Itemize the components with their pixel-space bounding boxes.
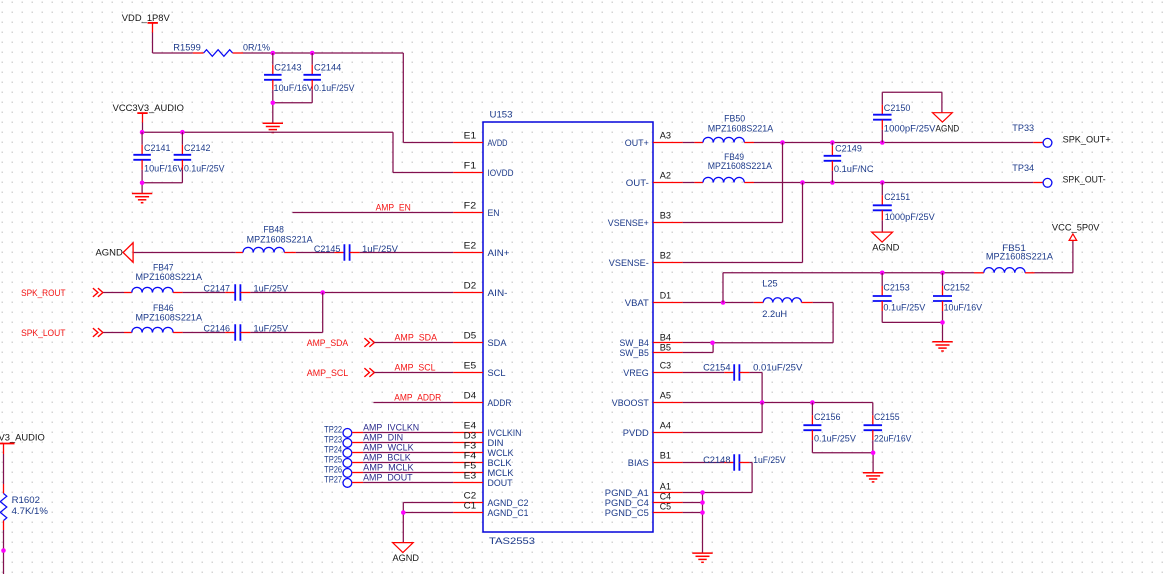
test point TP34 xyxy=(1012,163,1052,187)
wire BIAS to C2148 xyxy=(683,462,724,464)
svg-text:SPK_ROUT: SPK_ROUT xyxy=(21,288,66,298)
svg-text:0.1uF/25V: 0.1uF/25V xyxy=(184,163,225,173)
net label AMP_MCLK xyxy=(363,463,414,473)
svg-text:C2146: C2146 xyxy=(204,324,231,334)
wire C2148 to PGND net xyxy=(703,463,753,493)
wire C2145 to pin E2 xyxy=(360,252,454,254)
wire cap bottoms join xyxy=(273,103,312,123)
resistor R1599 xyxy=(173,43,270,57)
net label AMP_EN xyxy=(376,203,411,213)
pin A1 PGND_A1 xyxy=(605,482,683,498)
ferrite bead FB48 xyxy=(236,224,314,252)
pin B4 SW_B4 xyxy=(620,333,683,348)
wire FB51 to VCC_5P0V xyxy=(1035,242,1073,273)
svg-text:TP34: TP34 xyxy=(1012,163,1034,173)
capacitor C2145 xyxy=(314,244,399,261)
svg-text:AMP_MCLK: AMP_MCLK xyxy=(363,463,414,473)
ferrite bead FB46 xyxy=(124,303,203,333)
junction xyxy=(880,140,885,145)
pin A2 OUT- xyxy=(626,171,683,188)
svg-text:FB48: FB48 xyxy=(263,224,284,234)
ground AGND (triangle) xyxy=(933,113,960,134)
off-page connector AMP_SCL xyxy=(364,368,374,377)
svg-text:TP27: TP27 xyxy=(324,475,342,485)
svg-text:MPZ1608S221A: MPZ1608S221A xyxy=(708,124,774,134)
wire PGND net to ground xyxy=(702,493,704,553)
svg-text:IVCLKIN: IVCLKIN xyxy=(488,428,522,438)
wire AGND to FB48 xyxy=(134,252,236,254)
junction xyxy=(940,320,945,325)
ferrite bead FB51 xyxy=(974,243,1054,273)
junction xyxy=(700,490,705,495)
wire PGND_A1 xyxy=(683,492,703,494)
svg-text:C5: C5 xyxy=(660,502,671,512)
svg-text:TAS2553: TAS2553 xyxy=(489,536,535,546)
IC U153 TAS2553 xyxy=(483,110,653,547)
svg-text:AVDD: AVDD xyxy=(488,138,508,148)
svg-text:C2141: C2141 xyxy=(144,143,171,153)
svg-text:VBOOST: VBOOST xyxy=(612,398,649,408)
wire VSENSE- to OUT- net xyxy=(683,183,803,263)
pin F3 WCLK xyxy=(453,441,514,458)
ground xyxy=(863,473,883,482)
wire PGND_C5 xyxy=(683,512,703,514)
svg-text:C2154: C2154 xyxy=(703,363,730,373)
power symbol VDD_1P8V xyxy=(122,13,171,33)
svg-text:MPZ1608S221A: MPZ1608S221A xyxy=(247,235,314,245)
junction xyxy=(710,341,715,346)
wire VCC3V3_AUDIO to R1602 xyxy=(3,454,5,484)
svg-text:OUT+: OUT+ xyxy=(625,138,649,148)
wire VBAT rail xyxy=(723,273,974,303)
pin D5 SDA xyxy=(453,331,507,348)
off-page connector SPK_ROUT xyxy=(21,288,103,298)
svg-text:22uF/16V: 22uF/16V xyxy=(874,434,912,444)
power symbol VCC3V3_AUDIO (left edge) xyxy=(0,433,45,454)
svg-text:B5: B5 xyxy=(660,343,671,353)
svg-text:AMP_DIN: AMP_DIN xyxy=(363,433,403,443)
wire AMP_SCL to pin E5 xyxy=(374,372,453,374)
capacitor C2142 xyxy=(174,132,226,183)
junction xyxy=(760,400,765,405)
net label AMP_WCLK xyxy=(363,443,414,453)
svg-text:D2: D2 xyxy=(464,281,477,291)
svg-text:BIAS: BIAS xyxy=(628,458,649,468)
junction xyxy=(871,450,876,455)
pin E1 AVDD xyxy=(453,131,507,148)
wire C2146 up to SPK_ROUT net xyxy=(250,293,322,333)
capacitor C2150 xyxy=(873,92,936,142)
junction xyxy=(140,181,145,186)
svg-text:U153: U153 xyxy=(490,110,513,120)
svg-text:WCLK: WCLK xyxy=(488,448,515,458)
junction xyxy=(830,140,835,145)
svg-text:TP26: TP26 xyxy=(324,465,342,475)
junction xyxy=(180,130,185,135)
svg-text:VCC3V3_AUDIO: VCC3V3_AUDIO xyxy=(0,433,45,443)
pin A5 VBOOST xyxy=(612,391,683,408)
svg-text:VSENSE+: VSENSE+ xyxy=(608,218,649,228)
capacitor C2149 xyxy=(824,143,874,183)
pin C4 PGND_C4 xyxy=(605,492,683,508)
capacitor C2147 xyxy=(204,284,289,301)
pin C2 AGND_C2 xyxy=(453,491,528,508)
wire AMP_DOUT to IC xyxy=(352,482,453,484)
svg-text:C4: C4 xyxy=(660,492,671,502)
svg-text:A2: A2 xyxy=(660,171,671,181)
resistor R1602 xyxy=(0,484,48,530)
svg-text:10uF/16V: 10uF/16V xyxy=(944,302,983,312)
wire AMP_SDA to pin D5 xyxy=(374,342,453,344)
capacitor C2144 xyxy=(303,53,355,103)
svg-text:0.1uF/25V: 0.1uF/25V xyxy=(814,434,857,444)
svg-text:E5: E5 xyxy=(464,361,477,371)
ground xyxy=(263,123,283,132)
svg-text:AMP_ADDR: AMP_ADDR xyxy=(394,393,441,403)
wire cap bottoms join xyxy=(142,183,182,193)
svg-text:C2152: C2152 xyxy=(944,283,970,293)
svg-text:PGND_A1: PGND_A1 xyxy=(605,488,649,498)
svg-text:AMP_IVCLKN: AMP_IVCLKN xyxy=(363,423,419,433)
net label SPK_OUT- xyxy=(1063,174,1106,184)
svg-text:C2153: C2153 xyxy=(883,283,909,293)
svg-text:E4: E4 xyxy=(464,421,477,431)
ground AGND (arrow) xyxy=(96,243,134,262)
ground AGND (triangle) xyxy=(393,543,420,563)
svg-text:C2144: C2144 xyxy=(314,63,341,73)
svg-text:4.7K/1%: 4.7K/1% xyxy=(12,506,48,516)
net label AMP_SCL (left) xyxy=(307,368,348,378)
svg-text:A1: A1 xyxy=(660,482,671,492)
svg-text:AIN+: AIN+ xyxy=(488,248,510,258)
ground xyxy=(932,342,952,351)
svg-text:VCC_5P0V: VCC_5P0V xyxy=(1052,223,1100,233)
svg-text:L25: L25 xyxy=(762,279,777,289)
pin D1 VBAT xyxy=(625,291,683,308)
svg-text:FB50: FB50 xyxy=(724,114,745,124)
wire VSENSE+ to OUT+ net xyxy=(683,143,783,223)
capacitor C2146 xyxy=(204,324,289,341)
svg-text:MCLK: MCLK xyxy=(488,468,515,478)
svg-text:ADDR: ADDR xyxy=(488,398,512,408)
svg-text:AMP_SDA: AMP_SDA xyxy=(307,338,349,348)
wire OUT- to FB49 xyxy=(683,182,695,184)
svg-text:F2: F2 xyxy=(464,201,477,211)
svg-text:C1: C1 xyxy=(464,501,477,511)
capacitor C2148 xyxy=(703,454,786,471)
svg-text:C2147: C2147 xyxy=(204,284,231,294)
svg-text:0.1uF/NC: 0.1uF/NC xyxy=(834,164,874,174)
svg-text:2.2uH: 2.2uH xyxy=(762,309,787,319)
junction xyxy=(830,180,835,185)
svg-text:SPK_OUT+: SPK_OUT+ xyxy=(1063,134,1111,144)
off-page connector SPK_LOUT xyxy=(21,328,103,338)
svg-text:F4: F4 xyxy=(464,451,477,461)
net label AMP_DIN xyxy=(363,433,403,443)
capacitor C2156 xyxy=(803,403,856,453)
svg-text:B3: B3 xyxy=(660,211,671,221)
pin F2 EN xyxy=(453,201,499,218)
junction xyxy=(800,180,805,185)
svg-text:SCL: SCL xyxy=(488,368,506,378)
wire AMP_DIN to IC xyxy=(352,442,453,444)
wire SPK_ROUT to FB47 xyxy=(103,292,124,294)
test point TP26 xyxy=(324,465,352,478)
svg-text:PGND_C4: PGND_C4 xyxy=(605,498,649,508)
svg-text:F5: F5 xyxy=(464,461,477,471)
pin B1 BIAS xyxy=(628,451,683,468)
wire C2154 to VBOOST net xyxy=(749,373,762,403)
pin A4 PVDD xyxy=(623,421,683,438)
svg-text:FB46: FB46 xyxy=(153,303,174,313)
ferrite bead FB49 xyxy=(694,152,772,183)
junction xyxy=(940,271,945,276)
svg-text:AMP_DOUT: AMP_DOUT xyxy=(363,473,413,483)
svg-text:SPK_OUT-: SPK_OUT- xyxy=(1063,174,1106,184)
svg-text:VDD_1P8V: VDD_1P8V xyxy=(122,13,171,23)
junction xyxy=(271,101,276,106)
svg-text:1uF/25V: 1uF/25V xyxy=(753,455,786,465)
wire cap bottoms join xyxy=(812,453,873,473)
capacitor C2151 xyxy=(873,183,936,233)
svg-text:AMP_WCLK: AMP_WCLK xyxy=(363,443,414,453)
svg-text:10uF/16V: 10uF/16V xyxy=(274,83,314,93)
svg-text:PGND_C5: PGND_C5 xyxy=(605,508,649,518)
wire VDD_1P8V to R1599 xyxy=(153,33,193,54)
svg-text:IOVDD: IOVDD xyxy=(488,168,514,178)
wire FB48 to C2145 xyxy=(296,252,335,254)
junction xyxy=(140,130,145,135)
wire AMP_ADDR to pin D4 xyxy=(373,402,453,404)
svg-text:DIN: DIN xyxy=(488,438,504,448)
svg-text:C2142: C2142 xyxy=(184,143,211,153)
net label AMP_IVCLKN xyxy=(363,423,419,433)
ground xyxy=(132,194,152,203)
capacitor C2155 xyxy=(864,412,913,453)
junction xyxy=(320,290,325,295)
svg-text:C2148: C2148 xyxy=(703,455,730,465)
svg-text:SW_B5: SW_B5 xyxy=(620,348,649,358)
junction xyxy=(1,548,6,553)
power symbol VCC_5P0V xyxy=(1052,223,1100,242)
svg-text:VCC3V3_AUDIO: VCC3V3_AUDIO xyxy=(113,103,184,113)
wire OUT- net to TP34 xyxy=(754,182,1043,184)
wire AMP_WCLK to IC xyxy=(352,452,453,454)
svg-text:C2155: C2155 xyxy=(874,412,900,422)
svg-text:TP22: TP22 xyxy=(324,425,342,435)
wire FB46 to C2146 xyxy=(183,332,226,334)
pin F5 MCLK xyxy=(453,461,514,478)
junction xyxy=(700,500,705,505)
junction xyxy=(271,51,276,56)
pin D4 ADDR xyxy=(453,391,511,408)
net label AMP_SCL xyxy=(395,363,436,373)
svg-text:D5: D5 xyxy=(464,331,477,341)
svg-text:VBAT: VBAT xyxy=(625,298,649,308)
svg-text:SDA: SDA xyxy=(488,338,508,348)
svg-text:VREG: VREG xyxy=(623,368,649,378)
svg-text:AGND: AGND xyxy=(936,124,960,134)
svg-text:B4: B4 xyxy=(660,333,671,343)
ferrite bead FB47 xyxy=(124,263,203,293)
wire AMP_IVCLKN to IC xyxy=(352,432,453,434)
wire AMP_EN to pin F2 xyxy=(293,212,454,214)
junction xyxy=(880,180,885,185)
wire L25 to SW net xyxy=(713,303,834,343)
wire SW_B4 xyxy=(683,342,713,344)
svg-text:E1: E1 xyxy=(464,131,477,141)
svg-text:VSENSE-: VSENSE- xyxy=(609,258,649,268)
svg-text:AMP_SDA: AMP_SDA xyxy=(395,333,438,343)
svg-text:F3: F3 xyxy=(464,441,477,451)
svg-text:1000pF/25V: 1000pF/25V xyxy=(884,124,937,134)
svg-text:0.01uF/25V: 0.01uF/25V xyxy=(753,363,803,373)
pin B5 SW_B5 xyxy=(620,343,683,358)
pin B3 VSENSE+ xyxy=(608,211,683,228)
inductor L25 xyxy=(754,279,813,319)
svg-text:AMP_EN: AMP_EN xyxy=(376,203,411,213)
wire SPK_LOUT to FB46 xyxy=(103,332,124,334)
ground AGND (triangle) xyxy=(872,232,900,252)
junction xyxy=(810,400,815,405)
svg-text:0.1uF/25V: 0.1uF/25V xyxy=(883,302,926,312)
power symbol VCC3V3_AUDIO xyxy=(113,103,184,122)
svg-text:C2156: C2156 xyxy=(814,412,841,422)
svg-text:MPZ1608S221A: MPZ1608S221A xyxy=(708,161,773,171)
svg-text:AIN-: AIN- xyxy=(488,288,508,298)
svg-text:R1602: R1602 xyxy=(12,495,40,505)
wire AVDD net to pin E1 xyxy=(243,53,453,143)
svg-text:R1599: R1599 xyxy=(173,43,201,53)
ferrite bead FB50 xyxy=(694,114,774,143)
wire VBAT to L25 xyxy=(683,302,754,304)
svg-text:MPZ1608S221A: MPZ1608S221A xyxy=(986,252,1054,262)
svg-text:C2145: C2145 xyxy=(314,244,341,254)
junction xyxy=(401,510,406,515)
svg-text:MPZ1608S221A: MPZ1608S221A xyxy=(136,272,203,282)
pin E2 AIN+ xyxy=(453,241,509,258)
pin A3 OUT+ xyxy=(625,131,683,148)
capacitor C2153 xyxy=(873,273,926,323)
test point TP23 xyxy=(324,435,352,448)
pin F4 BCLK xyxy=(453,451,512,468)
wire SW_B5 xyxy=(683,343,713,353)
svg-text:A4: A4 xyxy=(660,421,671,431)
net label AMP_BCLK xyxy=(363,453,411,463)
svg-text:D1: D1 xyxy=(660,291,671,301)
svg-text:TP24: TP24 xyxy=(324,445,342,455)
svg-text:TP25: TP25 xyxy=(324,455,342,465)
test point TP25 xyxy=(324,455,352,468)
svg-text:A3: A3 xyxy=(660,131,671,141)
svg-text:C2143: C2143 xyxy=(274,63,301,73)
capacitor C2152 xyxy=(933,273,983,323)
svg-text:C2149: C2149 xyxy=(835,144,862,154)
svg-text:B2: B2 xyxy=(660,251,671,261)
wire OUT+ net to TP33 xyxy=(754,142,1043,144)
pin E4 IVCLKIN xyxy=(453,421,521,438)
capacitor C2143 xyxy=(264,53,314,103)
svg-text:1000pF/25V: 1000pF/25V xyxy=(885,212,936,222)
svg-text:SPK_LOUT: SPK_LOUT xyxy=(21,328,66,338)
junction xyxy=(310,51,315,56)
svg-text:A5: A5 xyxy=(660,391,671,401)
junction xyxy=(700,510,705,515)
wire VREG to C2154 xyxy=(683,372,724,374)
svg-text:E2: E2 xyxy=(464,241,477,251)
svg-text:B1: B1 xyxy=(660,451,671,461)
net label AMP_DOUT xyxy=(363,473,413,483)
junction xyxy=(721,300,726,305)
wire C2150 to AGND xyxy=(882,92,942,112)
pin D2 AIN- xyxy=(453,281,507,298)
pin F1 IOVDD xyxy=(453,161,513,178)
svg-text:EN: EN xyxy=(488,208,500,218)
svg-text:AMP_SCL: AMP_SCL xyxy=(307,368,348,378)
svg-text:MPZ1608S221A: MPZ1608S221A xyxy=(136,312,203,322)
svg-text:OUT-: OUT- xyxy=(626,178,649,188)
svg-text:0R/1%: 0R/1% xyxy=(243,43,270,53)
svg-text:PVDD: PVDD xyxy=(623,428,649,438)
pin C3 VREG xyxy=(623,361,683,378)
wire AMP_MCLK to IC xyxy=(352,472,453,474)
wire PVDD to VBOOST net xyxy=(683,403,762,433)
svg-text:10uF/16V: 10uF/16V xyxy=(144,163,184,173)
svg-text:AGND_C1: AGND_C1 xyxy=(488,508,529,518)
svg-text:DOUT: DOUT xyxy=(488,478,513,488)
wire R1602 down xyxy=(3,530,5,574)
capacitor C2154 xyxy=(703,363,803,381)
svg-text:D4: D4 xyxy=(464,391,477,401)
svg-text:C3: C3 xyxy=(660,361,671,371)
test point TP22 xyxy=(324,425,352,438)
test point TP27 xyxy=(324,475,352,488)
wire C2147 to pin D2 xyxy=(250,292,453,294)
off-page connector AMP_SDA xyxy=(364,338,374,347)
junction xyxy=(780,140,785,145)
wire OUT+ to FB50 xyxy=(683,142,695,144)
svg-text:TP33: TP33 xyxy=(1012,123,1034,133)
net label SPK_OUT+ xyxy=(1063,134,1111,144)
svg-text:C2151: C2151 xyxy=(884,192,910,202)
wire VBOOST net xyxy=(683,403,873,416)
pin E5 SCL xyxy=(453,361,505,378)
svg-text:AGND_C2: AGND_C2 xyxy=(488,498,529,508)
capacitor C2141 xyxy=(133,132,184,183)
wire AGND_C2 / AGND_C1 xyxy=(403,503,453,543)
test point TP33 xyxy=(1012,123,1052,147)
wire PGND_C4 xyxy=(683,502,703,504)
net label AMP_SDA xyxy=(395,333,438,343)
svg-text:E3: E3 xyxy=(464,471,477,481)
ground xyxy=(692,553,712,562)
pin B2 VSENSE- xyxy=(609,251,683,268)
svg-text:AGND: AGND xyxy=(96,248,124,258)
svg-text:C2150: C2150 xyxy=(884,103,911,113)
svg-text:AGND: AGND xyxy=(872,243,899,253)
wire cap bottoms join xyxy=(882,322,942,341)
wire FB47 to C2147 xyxy=(183,292,226,294)
svg-text:BCLK: BCLK xyxy=(488,458,513,468)
junction xyxy=(880,271,885,276)
svg-text:AMP_SCL: AMP_SCL xyxy=(395,363,436,373)
svg-text:SW_B4: SW_B4 xyxy=(620,338,649,348)
net label AMP_ADDR xyxy=(394,393,441,403)
svg-text:AMP_BCLK: AMP_BCLK xyxy=(363,453,411,463)
svg-text:D3: D3 xyxy=(464,431,477,441)
svg-text:TP23: TP23 xyxy=(324,435,342,445)
net label AMP_SDA (left) xyxy=(307,338,349,348)
